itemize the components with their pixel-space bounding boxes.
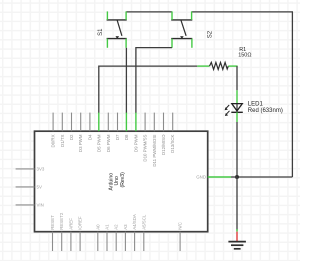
svg-text:RESET2: RESET2 (59, 212, 64, 230)
svg-text:D1/TX: D1/TX (60, 134, 65, 147)
svg-text:A3: A3 (123, 224, 128, 230)
S1 pin leg bottom-left (106, 39, 108, 48)
pin A3 (124, 232, 126, 251)
Arduino bottom pin labels (50, 212, 183, 230)
svg-text:VIN: VIN (37, 203, 44, 208)
svg-text:D12/MISO: D12/MISO (161, 134, 166, 155)
wire right vertical rail (291, 12, 293, 177)
Arduino right pin GND (connected, green) (208, 176, 231, 178)
S2 bottom bar (171, 38, 192, 40)
svg-text:GND: GND (196, 175, 206, 180)
svg-text:A1: A1 (105, 224, 110, 230)
svg-text:LED1: LED1 (248, 101, 264, 107)
pin D6 PWM (107, 113, 109, 132)
wire D5 to resistor R1 (99, 66, 198, 113)
S1 pin leg bottom-right (125, 39, 127, 48)
svg-text:D6 PWM: D6 PWM (106, 134, 111, 152)
pin 5V (16, 186, 35, 188)
pin A2 (115, 232, 117, 251)
S1 pin leg top-right (125, 11, 127, 20)
Arduino top pin labels (51, 134, 176, 167)
svg-text:A2: A2 (114, 224, 119, 230)
LED1 pin leg anode (236, 90, 238, 103)
svg-text:RESET: RESET (50, 215, 55, 230)
pin A1 (106, 232, 108, 251)
pin D5 PWM (connected, green) (98, 113, 100, 132)
svg-text:S2: S2 (207, 30, 213, 38)
pin D2 (71, 113, 73, 132)
pin RESET (52, 232, 54, 251)
LED1 pin leg cathode (236, 112, 238, 122)
pin RESET2 (61, 232, 63, 251)
svg-text:150Ω: 150Ω (238, 53, 251, 59)
pin D11 PWM/MOSI (153, 113, 155, 132)
LED1 triangle (232, 104, 243, 111)
R1 pin leg right (228, 65, 237, 67)
svg-text:D10 PWM/SS: D10 PWM/SS (143, 134, 148, 161)
ground bar 2 (231, 244, 243, 246)
Arduino Uno U1 body (35, 131, 208, 232)
svg-text:A5/SCL: A5/SCL (141, 214, 146, 230)
svg-text:D2: D2 (69, 134, 74, 140)
S2 actuator arrowhead (180, 36, 184, 39)
S1 actuator arrowhead (116, 36, 120, 39)
Arduino left pins (16, 169, 35, 205)
svg-text:(Rev3): (Rev3) (120, 172, 126, 188)
wire junction down to ground (236, 177, 238, 230)
LED1 emission arrow upper (225, 105, 230, 110)
wire GND pin to junction (231, 176, 237, 178)
ground (228, 232, 246, 249)
S2 top bar (171, 19, 192, 21)
svg-text:D11 PWM/MOSI: D11 PWM/MOSI (152, 135, 157, 167)
S1 bottom bar (107, 38, 127, 40)
wire S2 to right rail (192, 11, 293, 13)
pin D0/RX (52, 113, 54, 132)
pin D13/SCK (172, 113, 174, 132)
wire R1 down to LED1 (236, 66, 238, 90)
svg-text:D5 PWM: D5 PWM (96, 134, 101, 152)
S1 top bar (107, 19, 127, 21)
S2 pin leg top-right (191, 11, 193, 20)
LED LED1 (225, 90, 243, 122)
pin A0 (97, 232, 99, 251)
S2 pin leg bottom-right (191, 39, 193, 48)
wire LED1 to junction (236, 122, 238, 177)
svg-text:Red (633nm): Red (633nm) (248, 108, 283, 114)
wire junction to right rail (237, 176, 292, 178)
pin AREF (70, 232, 72, 251)
svg-text:S1: S1 (98, 28, 104, 36)
LED1 cathode bar (231, 111, 243, 113)
pin D9 PWM (connected, green) (135, 113, 137, 132)
svg-text:A0: A0 (95, 224, 100, 230)
pin IOREF (79, 232, 81, 251)
pin D3 PWM (80, 113, 82, 132)
svg-text:AREF: AREF (68, 218, 73, 230)
switch S1 (107, 11, 127, 47)
resistor R1 (197, 62, 237, 69)
Arduino left pin labels (37, 167, 45, 208)
wire S2 bottom to D9 (136, 48, 172, 113)
pin A5 (143, 232, 145, 251)
S1 pin leg top-left (106, 11, 108, 20)
pin VIN (16, 204, 35, 206)
LED1 internal wire through triangle (236, 104, 238, 112)
svg-text:A4/SDA: A4/SDA (132, 214, 137, 230)
Arduino bottom pins (53, 232, 181, 251)
ground bar 1 (228, 241, 246, 243)
LED1 emission arrow lower (225, 111, 230, 116)
pin 3V3 (16, 168, 35, 170)
pin N/C (179, 232, 181, 251)
wire end green tip at ground (236, 229, 238, 232)
S2 lever (181, 20, 186, 36)
switch S2 (171, 11, 192, 47)
pin A4 (134, 232, 136, 251)
svg-text:D4: D4 (87, 134, 92, 140)
svg-text:D13/SCK: D13/SCK (170, 134, 175, 152)
pin D10 PWM/SS (144, 113, 146, 132)
S2 pin leg bottom-left (171, 39, 173, 48)
pin D4 (89, 113, 91, 132)
svg-text:3V3: 3V3 (37, 167, 45, 172)
S1 lever (117, 20, 122, 36)
pin D7 (117, 113, 119, 132)
Arduino top pins D0-D13 (53, 113, 173, 132)
svg-text:D8: D8 (124, 134, 129, 140)
svg-text:D0/RX: D0/RX (51, 134, 56, 147)
R1 zigzag body (210, 62, 229, 69)
pin D8 (connected, green) (125, 113, 127, 132)
svg-text:5V: 5V (37, 185, 42, 190)
ground pin leg (red) (236, 232, 238, 242)
label Arduino Uno (Rev3) (108, 172, 126, 191)
ground bar 3 (234, 248, 241, 250)
svg-text:IOREF: IOREF (78, 216, 83, 230)
pin D12/MISO (163, 113, 165, 132)
junction node (235, 175, 239, 179)
S2 pin leg top-left (171, 11, 173, 20)
svg-text:D9 PWM: D9 PWM (133, 134, 138, 152)
svg-text:D7: D7 (115, 134, 120, 140)
wire S1 bottom to D8 (125, 48, 127, 113)
R1 pin leg left (197, 65, 209, 67)
wire top rail S1 to S2 (126, 11, 172, 13)
pin D1/TX (61, 113, 63, 132)
svg-text:D3 PWM: D3 PWM (78, 134, 83, 152)
svg-text:N/C: N/C (178, 222, 183, 230)
